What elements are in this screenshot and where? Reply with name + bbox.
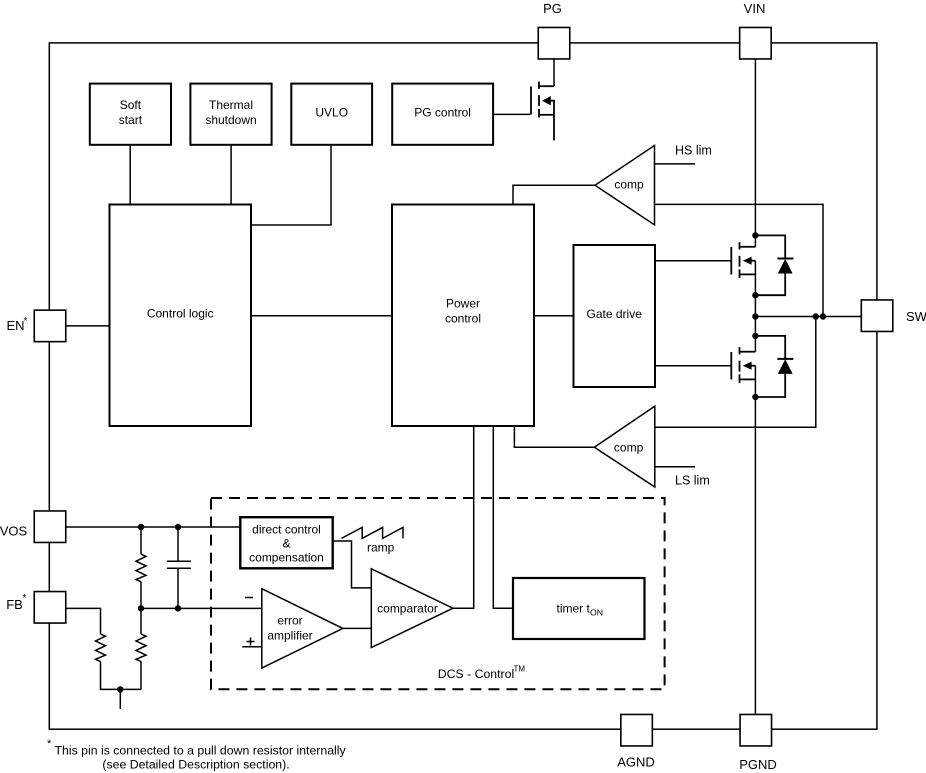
svg-text:PG: PG: [543, 1, 562, 16]
svg-text:(see Detailed Description sect: (see Detailed Description section).: [102, 758, 289, 772]
wire LS comp output to Power control: [514, 426, 594, 447]
wire lower resistor to ground node: [140, 662, 142, 690]
transistor high-side FET: [731, 242, 755, 278]
svg-text:LS lim: LS lim: [675, 474, 710, 488]
svg-text:direct control: direct control: [252, 523, 321, 537]
svg-text:Soft: Soft: [120, 98, 142, 112]
wire SW node to SW pin: [755, 316, 861, 318]
wire Control logic to Power control: [251, 315, 392, 317]
svg-text:Thermal: Thermal: [209, 98, 253, 112]
wire ramp to comparator input: [333, 541, 372, 588]
svg-text:HS lim: HS lim: [675, 144, 712, 158]
svg-text:Gate drive: Gate drive: [587, 307, 643, 321]
svg-text:comparator: comparator: [377, 602, 438, 616]
svg-text:error: error: [277, 614, 302, 628]
svg-text:*: *: [23, 593, 27, 604]
diode low-side body diode: [755, 336, 793, 397]
wire PG control to PG FET gate: [493, 113, 530, 115]
svg-text:*: *: [24, 316, 28, 327]
wire UVLO to Control logic: [251, 145, 331, 225]
capacitor feedforward: [167, 527, 191, 608]
node junction dots: [752, 232, 826, 400]
wire Gate drive to low-side FET gate: [655, 365, 731, 367]
wire divider mid node: [140, 582, 142, 609]
svg-text:timer t: timer t: [557, 602, 591, 616]
wire VOS node down to divider top resistor: [140, 527, 142, 554]
pin AGND: [621, 714, 653, 746]
block timer tON: [513, 578, 645, 639]
svg-text:comp: comp: [614, 178, 644, 192]
svg-text:compensation: compensation: [249, 551, 324, 565]
label plus input: [247, 638, 255, 646]
wire LS FET body down to PGND pin: [754, 366, 756, 715]
wire Power control to timer: [493, 426, 513, 608]
wire FB pin to internal pull-down resistor: [66, 608, 101, 634]
resistor divider lower: [136, 634, 146, 662]
svg-text:*: *: [47, 738, 52, 750]
comparator LS comp: [594, 406, 654, 487]
svg-text:FB: FB: [6, 597, 23, 612]
svg-text:shutdown: shutdown: [205, 113, 256, 127]
wire pull-down resistor to ground node: [101, 662, 142, 690]
svg-text:This pin is connected to a pul: This pin is connected to a pull down res…: [55, 744, 347, 758]
block UVLO: [291, 84, 372, 145]
wire Power control to Gate drive: [534, 315, 574, 317]
svg-text:Control logic: Control logic: [147, 307, 214, 321]
svg-text:PG control: PG control: [414, 106, 471, 120]
svg-text:PGND: PGND: [739, 757, 777, 772]
svg-text:start: start: [119, 113, 143, 127]
wire HS FET body through SW node to LS FET drain: [754, 261, 756, 352]
wire FB node to error amplifier inverting input: [141, 607, 262, 609]
block PG control: [392, 84, 493, 145]
wire HS comp output to Power control: [513, 185, 595, 204]
wire Thermal shutdown to Control logic: [230, 145, 232, 205]
transistor low-side FET: [731, 347, 755, 383]
transistor PG pull-down FET: [531, 82, 554, 141]
wire HS comp input from SW node: [655, 204, 824, 316]
block Soft start: [90, 84, 171, 145]
wire LS lim stub: [655, 466, 695, 468]
op-amp error amplifier: [262, 589, 343, 668]
svg-text:amplifier: amplifier: [267, 629, 312, 643]
block direct control & compensation: [240, 517, 332, 568]
svg-text:ON: ON: [590, 608, 603, 618]
svg-text:TM: TM: [514, 665, 526, 674]
svg-text:SW: SW: [906, 309, 926, 324]
wire ground stub: [119, 689, 121, 709]
svg-text:VOS: VOS: [0, 524, 28, 539]
block Gate drive: [574, 245, 656, 387]
comparator HS comp: [595, 146, 655, 225]
pin FB: [34, 592, 66, 624]
diode high-side body diode: [755, 235, 793, 295]
svg-text:control: control: [445, 312, 481, 326]
svg-text:DCS - Control: DCS - Control: [438, 667, 515, 681]
wire PG pin to PG FET drain: [553, 59, 555, 86]
wire VOS to direct control block: [66, 526, 241, 528]
wire VIN pin down to HS FET drain: [754, 59, 756, 247]
wire HS lim stub: [655, 163, 696, 165]
IC boundary border: [49, 43, 877, 729]
svg-text:EN: EN: [6, 318, 24, 333]
node ground junction dot: [117, 686, 123, 692]
wire error amplifier output to comparator: [343, 627, 372, 629]
resistor FB internal pull-down: [96, 634, 106, 662]
node junction dots FB node line: [138, 605, 144, 611]
svg-text:AGND: AGND: [617, 755, 655, 770]
svg-text:comp: comp: [614, 441, 644, 455]
pin VOS: [34, 511, 66, 543]
wire comparator output to Power control: [453, 426, 474, 608]
block Power control: [392, 205, 534, 427]
wire Soft start to Control logic: [129, 145, 131, 205]
node junction dots VOS line: [138, 524, 144, 530]
pin SW: [861, 300, 893, 332]
resistor divider upper: [136, 554, 146, 582]
svg-text:&: &: [282, 537, 290, 551]
svg-text:UVLO: UVLO: [315, 106, 348, 120]
label minus input: [245, 597, 253, 599]
comparator main PWM comparator: [371, 569, 453, 648]
svg-text:VIN: VIN: [744, 1, 766, 16]
pin PG: [538, 27, 570, 59]
dashed box DCS-Control: [211, 498, 665, 689]
wire LS comp input from SW node: [655, 317, 816, 428]
svg-text:ramp: ramp: [367, 541, 395, 555]
svg-text:Power: Power: [446, 297, 480, 311]
wire Gate drive to high-side FET gate: [655, 260, 731, 262]
pin VIN: [740, 27, 772, 59]
ramp sawtooth symbol: [342, 527, 404, 538]
wire EN to Control logic: [66, 325, 110, 327]
block Control logic: [110, 205, 252, 427]
block Thermal shutdown: [190, 84, 271, 145]
wire error amplifier plus stub: [242, 646, 262, 648]
pin PGND: [740, 714, 772, 746]
pin EN: [34, 310, 66, 342]
wire divider mid node down to lower resistor: [140, 608, 142, 634]
